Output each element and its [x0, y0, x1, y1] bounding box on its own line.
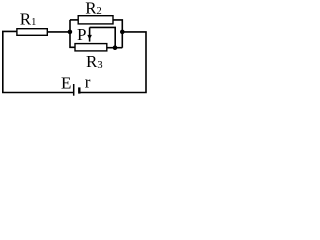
wire: node B to right edge, down, bottom-right to battery [79, 32, 146, 93]
wire: left edge + bottom-left to battery [3, 31, 74, 92]
wire: top branch left segment [70, 19, 78, 21]
wire: top branch right segment + vertical x=122 [113, 20, 122, 48]
battery long plate [73, 84, 75, 96]
resistor R1 [17, 29, 47, 36]
node A [68, 30, 73, 35]
wire: vertical through node A (R2 corner down to R3 branch) [70, 20, 75, 47]
svg-text:E: E [61, 74, 71, 93]
wire: R1 right to node A [48, 31, 70, 33]
node B [120, 30, 125, 35]
wire: R3 right terminal to x=122 vertical [107, 47, 123, 49]
resistor R2 [78, 16, 113, 24]
node C [113, 45, 118, 50]
svg-text:P: P [77, 25, 86, 44]
wiper arrow P [89, 27, 91, 41]
wiper arm wire of P [90, 27, 116, 47]
svg-text:r: r [85, 73, 91, 92]
battery short plate [78, 87, 80, 93]
potentiometer R3 body [75, 44, 107, 51]
